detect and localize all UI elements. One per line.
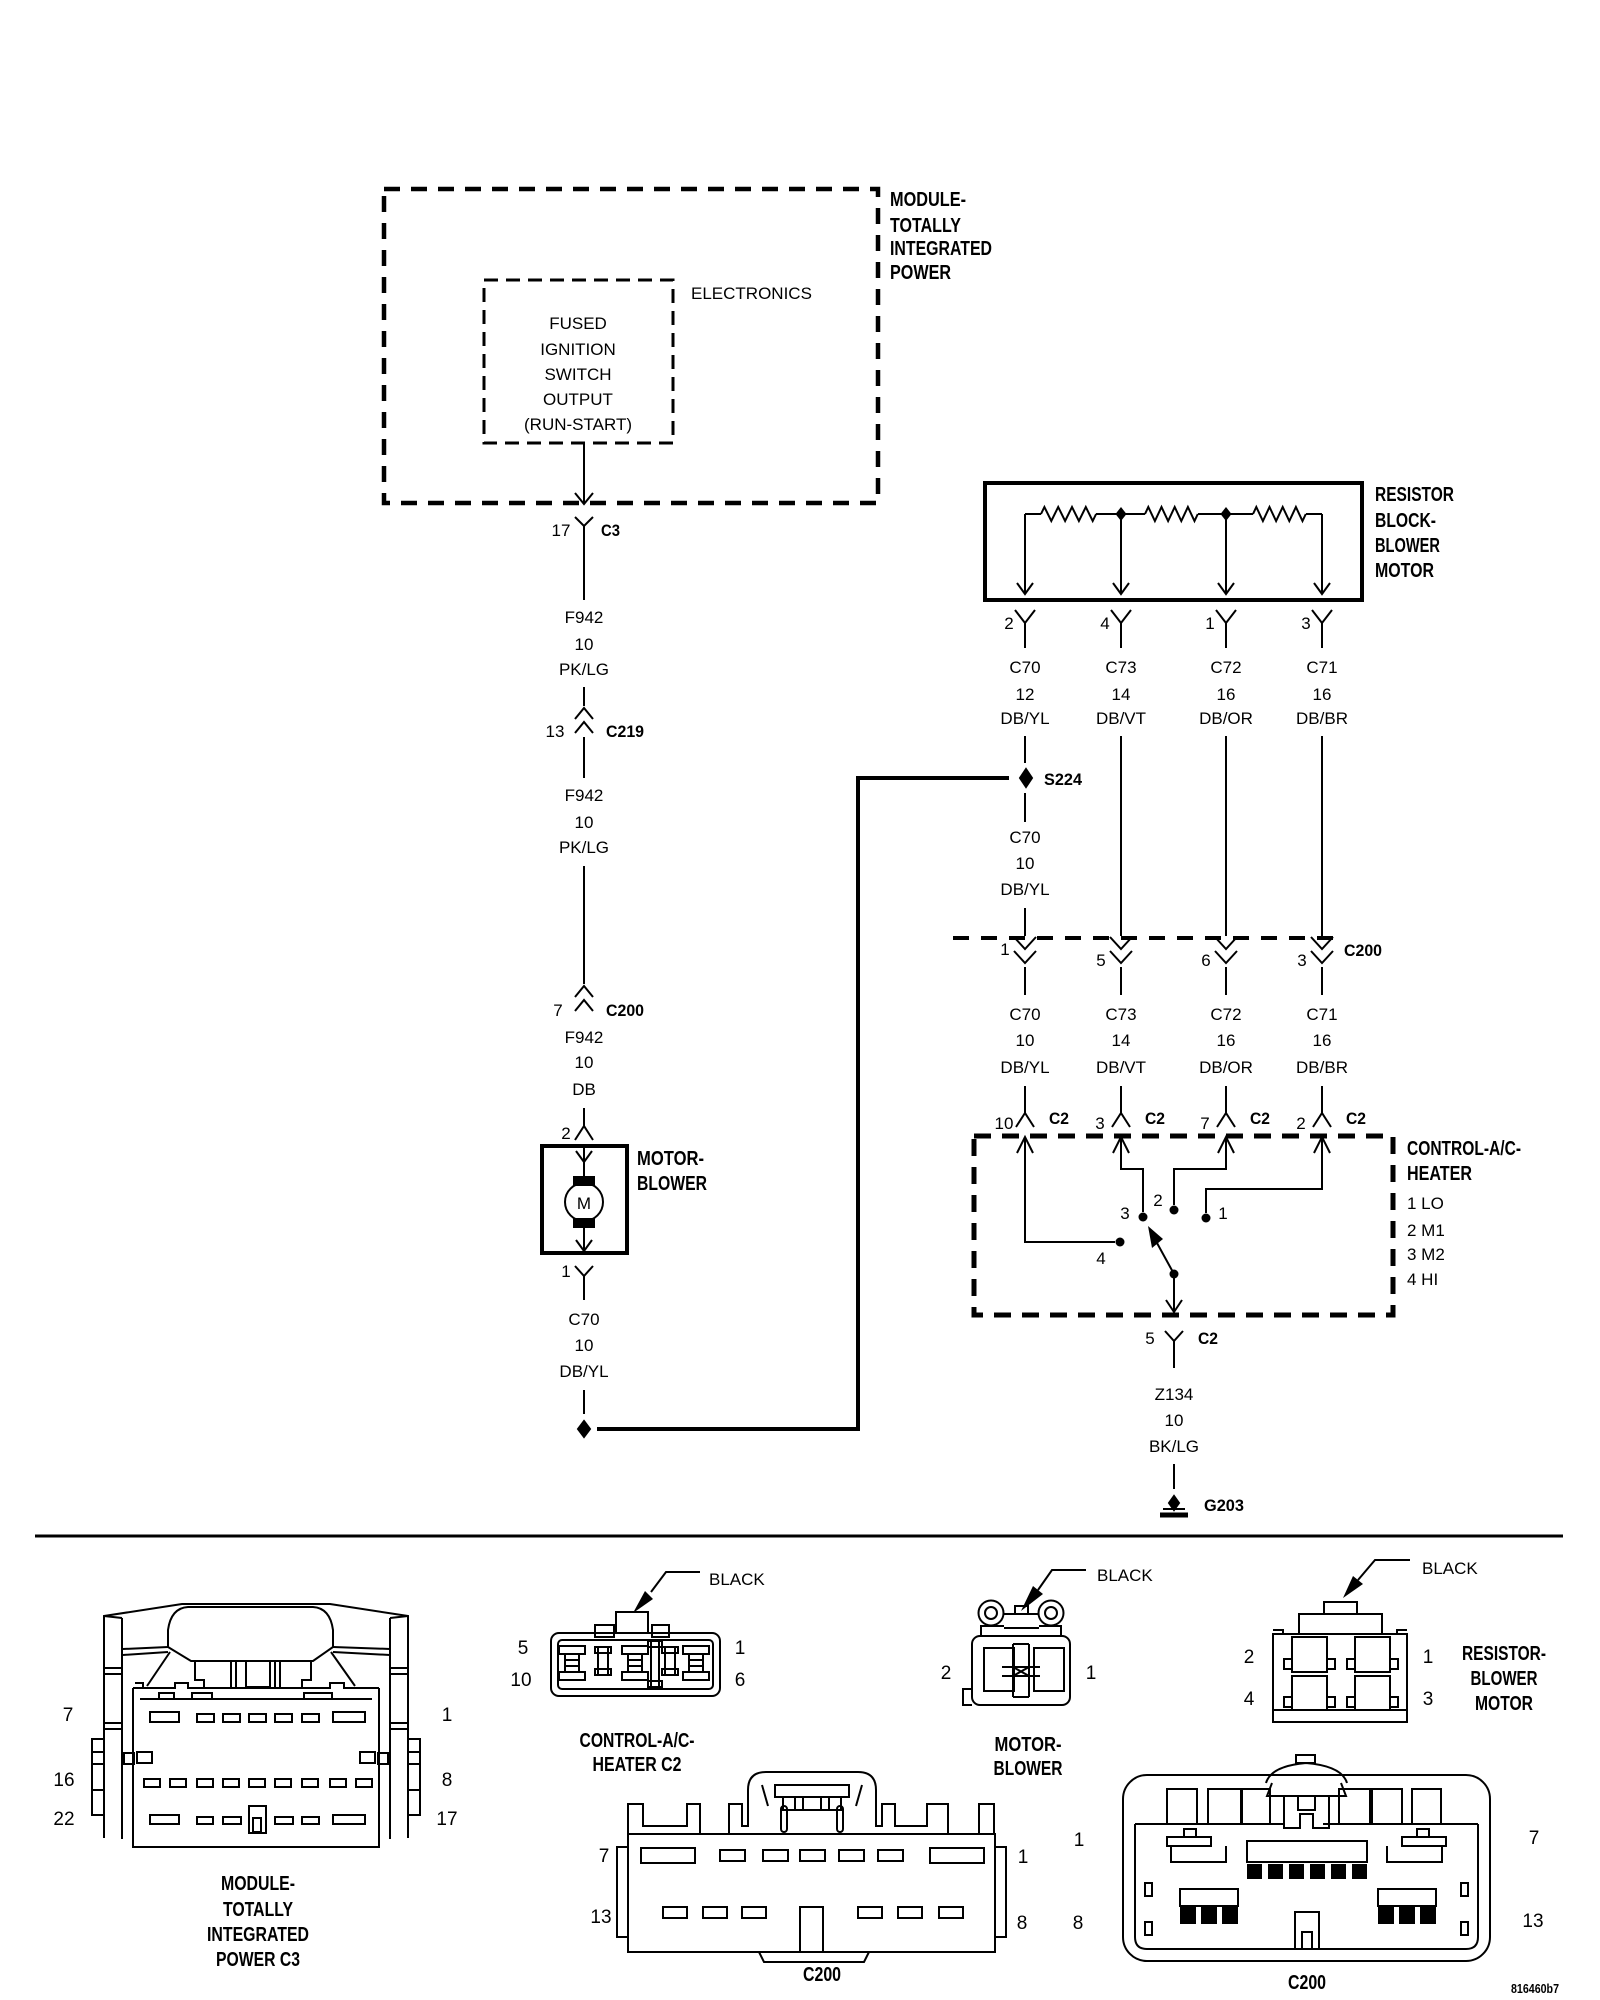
- svg-text:C3: C3: [601, 521, 620, 540]
- label FUSED IGNITION SWITCH OUTPUT (RUN-START): [524, 314, 632, 434]
- label MODULE-TOTALLY INTEGRATED POWER: [890, 189, 992, 284]
- svg-text:BLOWER: BLOWER: [994, 1758, 1063, 1780]
- C200 terminal group left: [1180, 1889, 1238, 1906]
- wire label C70 12 DB/YL: [1000, 658, 1049, 728]
- inline connector C200 pin 6 symbol: [1215, 937, 1237, 963]
- label RESISTOR BLOCK-BLOWER MOTOR: [1375, 484, 1454, 582]
- wire stub below resistor pin 4: [1120, 636, 1122, 648]
- svg-text:2: 2: [1153, 1191, 1162, 1210]
- wire segment to splice S224: [1024, 736, 1026, 763]
- svg-text:DB/YL: DB/YL: [1000, 1058, 1049, 1077]
- wire label C73 14 DB/VT (lower): [1096, 1005, 1146, 1077]
- svg-text:BLOWER: BLOWER: [637, 1173, 707, 1195]
- wire label C71 16 DB/BR: [1296, 658, 1348, 728]
- svg-text:17: 17: [552, 521, 571, 540]
- svg-text:MOTOR: MOTOR: [1475, 1693, 1533, 1715]
- svg-text:1: 1: [442, 1705, 453, 1726]
- svg-text:7: 7: [63, 1705, 74, 1726]
- svg-text:C70: C70: [1009, 828, 1040, 847]
- svg-text:DB/BR: DB/BR: [1296, 1058, 1348, 1077]
- svg-text:CONTROL-A/C-: CONTROL-A/C-: [1407, 1138, 1521, 1160]
- svg-text:IGNITION: IGNITION: [540, 340, 616, 359]
- caption RESISTOR-BLOWER MOTOR: [1462, 1643, 1546, 1715]
- svg-text:13: 13: [1522, 1911, 1543, 1932]
- wire C70 segment below motor: [583, 1290, 585, 1300]
- switch contact 4 wire (from pin 10): [1025, 1137, 1115, 1242]
- wire label F942 10 PK/LG (middle): [559, 786, 609, 857]
- connector face C200 (device side): [1123, 1755, 1490, 1961]
- svg-text:DB/VT: DB/VT: [1096, 709, 1146, 728]
- svg-text:DB: DB: [572, 1080, 596, 1099]
- svg-text:7: 7: [1200, 1114, 1209, 1133]
- svg-text:1: 1: [735, 1638, 746, 1659]
- resistor R3: [1253, 507, 1306, 521]
- entry arrow into control box at x=1322: [1314, 1137, 1330, 1153]
- svg-text:C2: C2: [1250, 1109, 1270, 1128]
- switch contact 4 node: [1116, 1238, 1125, 1247]
- wire segment below C200 at x=1025: [1024, 967, 1026, 995]
- long wire segment to C200: [583, 866, 585, 984]
- wire segment to C2 at x=1025: [1024, 1086, 1026, 1113]
- svg-text:10: 10: [1016, 854, 1035, 873]
- pin labels C200 (device side): [1073, 1828, 1544, 1934]
- resistor block box (RESISTOR BLOCK-BLOWER MOTOR): [985, 483, 1362, 600]
- switch contact 3 node: [1139, 1213, 1148, 1222]
- svg-text:C200: C200: [803, 1964, 841, 1986]
- svg-text:10: 10: [575, 1336, 594, 1355]
- svg-text:POWER: POWER: [890, 262, 951, 284]
- svg-text:BLACK: BLACK: [709, 1570, 765, 1589]
- svg-text:BLACK: BLACK: [1097, 1566, 1153, 1585]
- svg-text:1: 1: [1423, 1647, 1434, 1668]
- pin labels motor-blower face: [941, 1663, 1097, 1684]
- resistor block pin 4 connector symbol: [1111, 610, 1131, 638]
- svg-text:3: 3: [1301, 614, 1310, 633]
- switch contact 2 wire (from pin 7): [1174, 1137, 1226, 1205]
- leader BLACK (resistor connector): [1343, 1560, 1410, 1598]
- connector C2 pin 7 symbol: [1217, 1113, 1235, 1127]
- C200 bottom keyway: [1295, 1912, 1319, 1949]
- svg-text:MODULE-: MODULE-: [221, 1873, 295, 1895]
- svg-text:F942: F942: [565, 786, 604, 805]
- wire label C71 16 DB/BR (lower): [1296, 1005, 1348, 1077]
- svg-text:C2: C2: [1145, 1109, 1165, 1128]
- svg-text:14: 14: [1112, 685, 1131, 704]
- bus wire R2 to R3: [1198, 513, 1253, 515]
- inline connector C200 pin 5 symbol: [1110, 937, 1132, 963]
- splice S224 diamond: [1020, 769, 1032, 787]
- arrowhead at TIPM box edge: [575, 493, 593, 504]
- svg-text:16: 16: [1217, 685, 1236, 704]
- svg-text:F942: F942: [565, 1028, 604, 1047]
- connector face CONTROL-A/C-HEATER C2: [551, 1612, 720, 1696]
- caption MOTOR-BLOWER: [994, 1734, 1063, 1780]
- svg-text:1: 1: [1218, 1204, 1227, 1223]
- svg-text:10: 10: [1165, 1411, 1184, 1430]
- svg-text:OUTPUT: OUTPUT: [543, 390, 613, 409]
- connector face MODULE-TOTALLY INTEGRATED POWER C3: [104, 1604, 408, 1847]
- resistor R2: [1145, 507, 1198, 521]
- svg-text:TOTALLY: TOTALLY: [890, 215, 962, 237]
- label MOTOR-BLOWER: [637, 1148, 707, 1195]
- wire segment to C2 at x=1322: [1321, 1086, 1323, 1113]
- label CONTROL-A/C-HEATER: [1407, 1138, 1521, 1185]
- bus wire right: [1306, 513, 1322, 515]
- resistor block pin 3 connector symbol: [1312, 610, 1332, 638]
- module box TIPM (MODULE-TOTALLY INTEGRATED POWER): [384, 189, 878, 503]
- resistor R1: [1041, 507, 1096, 521]
- svg-text:DB/OR: DB/OR: [1199, 709, 1253, 728]
- connector face RESISTOR-BLOWER MOTOR: [1273, 1602, 1407, 1722]
- connector C3 pin 17 symbol: [575, 517, 593, 540]
- ground G203 symbol: [1160, 1496, 1188, 1515]
- svg-text:3: 3: [1297, 951, 1306, 970]
- svg-text:8: 8: [442, 1770, 453, 1791]
- svg-text:13: 13: [546, 722, 565, 741]
- svg-text:1: 1: [561, 1262, 570, 1281]
- svg-text:C71: C71: [1306, 658, 1337, 677]
- pin labels for C3 face: [53, 1705, 457, 1830]
- svg-text:2: 2: [1244, 1647, 1255, 1668]
- svg-text:DB/OR: DB/OR: [1199, 1058, 1253, 1077]
- svg-text:10: 10: [575, 1053, 594, 1072]
- junction node at pin 4 tap: [1116, 507, 1127, 521]
- svg-text:BLOWER: BLOWER: [1375, 535, 1440, 557]
- thick jumper wire from motor splice to S224: [597, 778, 1009, 1429]
- svg-text:2: 2: [561, 1124, 570, 1143]
- wire segment to C2 at x=1226: [1225, 1086, 1227, 1113]
- entry arrow into control box at x=1226: [1218, 1137, 1234, 1153]
- motor-blower box M1: [542, 1146, 627, 1253]
- svg-text:22: 22: [53, 1809, 74, 1830]
- C200 side notches: [1145, 1883, 1468, 1935]
- wire segment to C200 row at x=1322: [1321, 736, 1323, 936]
- C2 small terminal at x=670: [662, 1647, 678, 1675]
- C200 slots row 2 with keyway: [663, 1907, 963, 1952]
- C2 large terminal at x=635: [622, 1646, 648, 1680]
- junction node at pin 1 tap: [1221, 507, 1232, 521]
- svg-text:1: 1: [1074, 1830, 1085, 1851]
- svg-text:G203: G203: [1204, 1496, 1244, 1515]
- wire segment below C219: [583, 737, 585, 778]
- wire segment to C200 row: [1024, 908, 1026, 936]
- svg-text:5: 5: [1096, 951, 1105, 970]
- caption CONTROL-A/C-HEATER C2: [580, 1730, 695, 1776]
- svg-text:HEATER: HEATER: [1407, 1163, 1472, 1185]
- pin slots row 1 (pins 1-7): [150, 1712, 365, 1722]
- svg-text:3: 3: [1120, 1204, 1129, 1223]
- svg-text:3: 3: [1423, 1689, 1434, 1710]
- switch contact 3 wire (from pin 3): [1121, 1137, 1143, 1212]
- svg-text:SWITCH: SWITCH: [544, 365, 611, 384]
- svg-text:C2: C2: [1049, 1109, 1069, 1128]
- resistor block pin 1 connector symbol: [1216, 610, 1236, 638]
- svg-text:S224: S224: [1044, 770, 1083, 789]
- svg-text:16: 16: [1217, 1031, 1236, 1050]
- svg-text:C70: C70: [1009, 1005, 1040, 1024]
- wire segment below S224: [1024, 793, 1026, 822]
- svg-text:DB/VT: DB/VT: [1096, 1058, 1146, 1077]
- switch contact 1 node: [1202, 1214, 1211, 1223]
- switch contact 2 node: [1170, 1206, 1179, 1215]
- caption MODULE-TOTALLY INTEGRATED POWER C3: [207, 1873, 309, 1971]
- svg-text:3 M2: 3 M2: [1407, 1245, 1445, 1264]
- svg-text:17: 17: [436, 1809, 457, 1830]
- svg-text:2: 2: [941, 1663, 952, 1684]
- wire label Z134 10 BK/LG: [1149, 1385, 1199, 1456]
- connector C2 pin 10 symbol: [1016, 1113, 1034, 1127]
- wire segment below C200 at x=1322: [1321, 967, 1323, 995]
- resistor block internal drop wire at x=1226 with arrow: [1218, 514, 1234, 594]
- wire segment to ground: [1173, 1464, 1175, 1489]
- svg-text:1: 1: [1205, 614, 1214, 633]
- svg-text:BLACK: BLACK: [1422, 1559, 1478, 1578]
- svg-text:1: 1: [1018, 1847, 1029, 1868]
- inline connector C200 pin 7 symbol: [575, 986, 593, 1011]
- connector C2 pin 2 symbol: [1313, 1113, 1331, 1127]
- wire label C70 10 DB/YL (lower): [1000, 1005, 1049, 1077]
- inline connector C200 pin 1 symbol: [1014, 937, 1036, 963]
- svg-text:4: 4: [1244, 1689, 1255, 1710]
- wire segment to C219: [583, 687, 585, 706]
- svg-text:C2: C2: [1346, 1109, 1366, 1128]
- svg-text:F942: F942: [565, 608, 604, 627]
- wire segment below C200 at x=1226: [1225, 967, 1227, 995]
- svg-text:C70: C70: [1009, 658, 1040, 677]
- leader BLACK (motor-blower connector): [1021, 1570, 1086, 1611]
- separator line between schematic and connector views: [35, 1535, 1563, 1538]
- C2 large terminal at x=572: [559, 1646, 585, 1680]
- svg-text:C200: C200: [606, 1001, 644, 1020]
- svg-text:INTEGRATED: INTEGRATED: [890, 238, 992, 260]
- resistor block pin 2 connector symbol: [1015, 610, 1035, 638]
- inline connector C200 dashed separation line: [953, 936, 1338, 940]
- svg-text:816460b7: 816460b7: [1511, 1981, 1559, 1996]
- svg-text:DB/BR: DB/BR: [1296, 709, 1348, 728]
- wire label C73 14 DB/VT: [1096, 658, 1146, 728]
- wire label F942 10 DB: [565, 1028, 604, 1099]
- pin slots row 3 (pins 17-22) with center keyway: [150, 1806, 365, 1833]
- svg-text:C72: C72: [1210, 658, 1241, 677]
- wiper output wire with arrow: [1166, 1274, 1182, 1312]
- pin slots row 2 (pins 8-16): [144, 1779, 372, 1787]
- svg-text:FUSED: FUSED: [549, 314, 607, 333]
- C200 slots row 1: [641, 1848, 984, 1863]
- svg-text:6: 6: [1201, 951, 1210, 970]
- svg-text:1: 1: [1086, 1663, 1097, 1684]
- connector face MOTOR-BLOWER: [963, 1601, 1070, 1706]
- svg-text:BLOWER: BLOWER: [1471, 1668, 1538, 1690]
- svg-text:HEATER C2: HEATER C2: [593, 1754, 682, 1776]
- svg-text:PK/LG: PK/LG: [559, 660, 609, 679]
- splice node diamond (motor ground joint): [578, 1421, 590, 1437]
- svg-text:10: 10: [995, 1114, 1014, 1133]
- C2 large terminal at x=696: [683, 1646, 709, 1680]
- pin labels resistor connector: [1244, 1647, 1434, 1710]
- wire Z134 segment: [1173, 1355, 1175, 1368]
- svg-text:4 HI: 4 HI: [1407, 1270, 1438, 1289]
- svg-text:DB/YL: DB/YL: [559, 1362, 608, 1381]
- svg-text:5: 5: [1145, 1329, 1154, 1348]
- svg-text:MOTOR-: MOTOR-: [637, 1148, 704, 1170]
- svg-text:5: 5: [518, 1638, 529, 1659]
- resistor block internal drop wire at x=1322 with arrow: [1314, 514, 1330, 594]
- svg-text:RESISTOR-: RESISTOR-: [1462, 1643, 1546, 1665]
- svg-text:C73: C73: [1105, 658, 1136, 677]
- motor pin 1 connector symbol: [575, 1266, 593, 1290]
- bus wire R1 to R2: [1096, 513, 1145, 515]
- wire stub below resistor pin 2: [1024, 636, 1026, 648]
- motor brush bottom: [574, 1219, 594, 1227]
- svg-text:10: 10: [575, 813, 594, 832]
- svg-text:CONTROL-A/C-: CONTROL-A/C-: [580, 1730, 695, 1752]
- motor internal wire bottom with arrow: [576, 1225, 592, 1251]
- wire F942 10 PK/LG (upper): [583, 540, 585, 600]
- side latch right: [360, 1739, 420, 1815]
- inline connector C200 pin 3 symbol: [1311, 937, 1333, 963]
- svg-text:INTEGRATED: INTEGRATED: [207, 1924, 309, 1946]
- svg-text:C73: C73: [1105, 1005, 1136, 1024]
- svg-text:MOTOR: MOTOR: [1375, 560, 1434, 582]
- wire segment to splice: [583, 1390, 585, 1414]
- svg-text:BK/LG: BK/LG: [1149, 1437, 1199, 1456]
- C2 small terminal at x=603: [595, 1647, 611, 1675]
- wire segment to C200 row at x=1121: [1120, 736, 1122, 936]
- C200 terminal group right: [1378, 1889, 1436, 1906]
- resistor block internal drop wire at x=1121 with arrow: [1113, 514, 1129, 594]
- pin labels C200 (harness side): [590, 1846, 1028, 1934]
- wire stub below resistor pin 1: [1225, 636, 1227, 648]
- wire label C72 16 DB/OR (lower): [1199, 1005, 1253, 1077]
- svg-text:C200: C200: [1344, 941, 1382, 960]
- entry arrow into control box at x=1025: [1017, 1137, 1033, 1153]
- resistor block internal drop wire at x=1025 with arrow: [1017, 514, 1033, 594]
- svg-text:DB/YL: DB/YL: [1000, 709, 1049, 728]
- wire segment to motor-blower: [583, 1108, 585, 1126]
- control box (CONTROL-A/C-HEATER): [974, 1136, 1393, 1315]
- svg-text:POWER C3: POWER C3: [216, 1949, 300, 1971]
- svg-text:16: 16: [1313, 1031, 1332, 1050]
- wire segment to C2 at x=1121: [1120, 1086, 1122, 1113]
- C2 keyway divider: [648, 1641, 662, 1687]
- svg-text:BLOCK-: BLOCK-: [1375, 510, 1436, 532]
- wire segment below C200 at x=1121: [1120, 967, 1122, 995]
- svg-text:C2: C2: [1198, 1329, 1218, 1348]
- connector face C200 (harness side): [617, 1772, 1006, 1962]
- motor brush top: [574, 1177, 594, 1185]
- svg-text:8: 8: [1073, 1913, 1084, 1934]
- wire label C70 10 DB/YL (motor side): [559, 1310, 608, 1381]
- svg-text:2 M1: 2 M1: [1407, 1221, 1445, 1240]
- wire stub below resistor pin 3: [1321, 636, 1323, 648]
- label switch positions 1 LO 2 M1 3 M2 4 HI: [1407, 1194, 1445, 1289]
- svg-text:8: 8: [1017, 1913, 1028, 1934]
- wire from electronics box to connector C3: [583, 443, 585, 503]
- svg-text:4: 4: [1100, 614, 1109, 633]
- svg-text:3: 3: [1095, 1114, 1104, 1133]
- electronics sub-box (FUSED IGNITION SWITCH OUTPUT RUN-START): [484, 280, 673, 443]
- svg-text:7: 7: [599, 1846, 610, 1867]
- svg-text:6: 6: [735, 1670, 746, 1691]
- wire label C72 16 DB/OR: [1199, 658, 1253, 728]
- svg-text:C70: C70: [568, 1310, 599, 1329]
- svg-text:RESISTOR: RESISTOR: [1375, 484, 1454, 506]
- switch wiper arm SW1: [1148, 1226, 1174, 1274]
- entry arrow into control box at x=1121: [1113, 1137, 1129, 1153]
- svg-text:M: M: [577, 1194, 591, 1213]
- svg-text:MOTOR-: MOTOR-: [995, 1734, 1062, 1756]
- wire segment to C200 row at x=1226: [1225, 736, 1227, 936]
- wire label F942 10 PK/LG: [559, 608, 609, 679]
- svg-text:TOTALLY: TOTALLY: [223, 1899, 294, 1921]
- svg-text:(RUN-START): (RUN-START): [524, 415, 632, 434]
- switch pivot node: [1170, 1270, 1179, 1279]
- svg-text:PK/LG: PK/LG: [559, 838, 609, 857]
- svg-text:2: 2: [1296, 1114, 1305, 1133]
- svg-text:14: 14: [1112, 1031, 1131, 1050]
- svg-text:7: 7: [1529, 1828, 1540, 1849]
- connector C2 pin 5 symbol: [1165, 1331, 1183, 1355]
- svg-text:10: 10: [1016, 1031, 1035, 1050]
- svg-text:4: 4: [1096, 1249, 1105, 1268]
- svg-text:C219: C219: [606, 722, 644, 741]
- svg-text:10: 10: [510, 1670, 531, 1691]
- motor symbol M circle: [565, 1183, 603, 1221]
- motor internal wire top with arrow: [576, 1146, 592, 1181]
- side latch left: [92, 1739, 152, 1815]
- svg-text:12: 12: [1016, 685, 1035, 704]
- resistor bus wire left: [1025, 513, 1041, 515]
- pin labels C2 face: [510, 1638, 745, 1691]
- svg-text:10: 10: [575, 635, 594, 654]
- C200 terminals center row (black): [1247, 1864, 1367, 1879]
- svg-text:16: 16: [1313, 685, 1332, 704]
- svg-text:1: 1: [1000, 940, 1009, 959]
- svg-text:Z134: Z134: [1155, 1385, 1194, 1404]
- leader BLACK (C2 connector): [633, 1572, 700, 1613]
- svg-text:DB/YL: DB/YL: [1000, 880, 1049, 899]
- switch contact 1 wire (from pin 2): [1206, 1137, 1322, 1213]
- svg-text:MODULE-: MODULE-: [890, 189, 966, 211]
- svg-text:2: 2: [1004, 614, 1013, 633]
- svg-text:7: 7: [553, 1001, 562, 1020]
- inline connector C219 pin 13 symbol: [575, 708, 593, 733]
- svg-text:C200: C200: [1288, 1972, 1326, 1994]
- svg-text:13: 13: [590, 1907, 611, 1928]
- svg-text:1 LO: 1 LO: [1407, 1194, 1444, 1213]
- svg-text:C72: C72: [1210, 1005, 1241, 1024]
- svg-text:16: 16: [53, 1770, 74, 1791]
- motor pin 2 half-connector symbol: [575, 1126, 593, 1140]
- wire label C70 10 DB/YL (below S224): [1000, 828, 1049, 899]
- svg-text:ELECTRONICS: ELECTRONICS: [691, 284, 812, 303]
- connector C2 pin 3 symbol: [1112, 1113, 1130, 1127]
- svg-text:C71: C71: [1306, 1005, 1337, 1024]
